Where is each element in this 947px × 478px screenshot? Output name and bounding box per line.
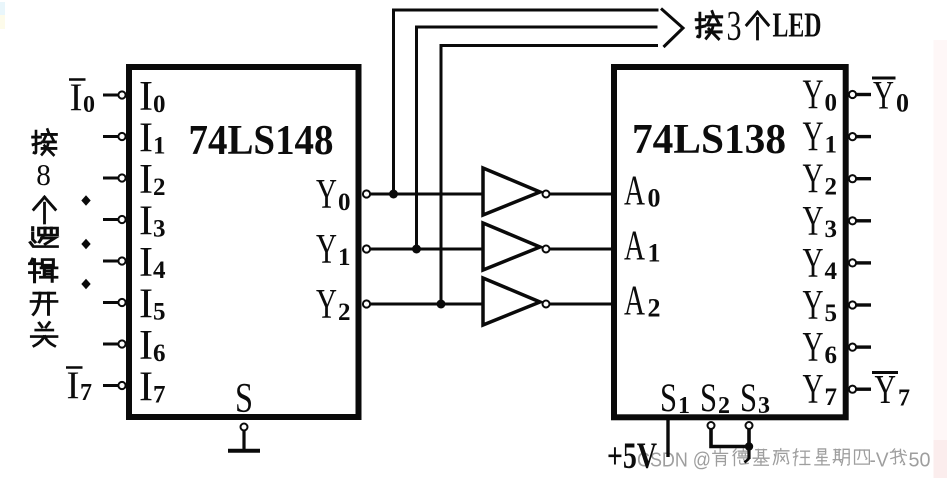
svg-text:7: 7 [153, 382, 166, 409]
svg-text:Y: Y [875, 366, 897, 412]
svg-text:3: 3 [153, 216, 166, 243]
svg-text:4: 4 [153, 257, 166, 284]
svg-text:0: 0 [338, 189, 351, 216]
pin bubble S2 [708, 422, 715, 429]
net Y0 wire: chip to LED bus and inverter [370, 10, 659, 194]
svg-text:0: 0 [896, 89, 909, 118]
U2 output labels Y0..Y7 inside [803, 73, 838, 414]
ellipsis diamonds [81, 195, 90, 289]
svg-text:A: A [624, 279, 645, 325]
U1 pin labels I0..I7 inside [139, 74, 166, 411]
svg-text:Y: Y [316, 282, 337, 328]
svg-text:I: I [139, 323, 153, 369]
node label Y0-bar [872, 73, 909, 118]
svg-text:5: 5 [153, 299, 166, 326]
svg-text:A: A [624, 169, 645, 215]
svg-text:S: S [660, 375, 677, 420]
svg-text:Y: Y [803, 199, 824, 245]
svg-text:I: I [67, 364, 80, 407]
svg-text:2: 2 [153, 174, 166, 201]
LED bus arrow [661, 9, 683, 48]
junction dot S3 [745, 442, 753, 450]
svg-text:I: I [139, 199, 153, 245]
svg-text:3: 3 [727, 3, 742, 50]
svg-text:0: 0 [825, 90, 838, 117]
svg-text:4: 4 [825, 258, 838, 285]
svg-text:A: A [624, 224, 645, 270]
U1 input pins I0-I7 (stubs and bubbles) [103, 95, 118, 386]
svg-text:3: 3 [758, 393, 770, 419]
svg-text:Y: Y [803, 73, 824, 119]
svg-text:I: I [70, 76, 83, 119]
junction dot Y1 [412, 245, 421, 254]
svg-text:+5V: +5V [607, 436, 657, 477]
svg-text:7: 7 [825, 384, 838, 411]
inverter G2 [483, 223, 614, 270]
svg-text:1: 1 [153, 133, 166, 160]
svg-text:I: I [139, 157, 153, 203]
svg-text:Y: Y [803, 115, 824, 161]
svg-text:6: 6 [153, 340, 166, 367]
svg-text:0: 0 [153, 91, 166, 118]
svg-text:Y: Y [316, 227, 337, 273]
svg-text:1: 1 [825, 132, 838, 159]
svg-text:Y: Y [803, 241, 824, 287]
svg-text:2: 2 [718, 393, 730, 419]
net Y2 wire [370, 46, 658, 305]
junction dot Y2 [437, 300, 446, 309]
U2 output pin stubs and bubbles [849, 91, 856, 393]
note 接3个LED [696, 3, 821, 50]
watermark CSDN @肯德基疯狂星期四-V我50 [637, 449, 931, 472]
svg-text:74LS148: 74LS148 [189, 118, 334, 164]
node label I7-bar [66, 364, 92, 407]
svg-text:S: S [740, 375, 757, 420]
svg-text:S: S [235, 376, 253, 422]
svg-text:74LS138: 74LS138 [632, 117, 786, 163]
svg-text:50: 50 [909, 449, 931, 472]
svg-text:Y: Y [316, 172, 337, 218]
svg-text:I: I [139, 240, 153, 286]
svg-text:6: 6 [825, 342, 838, 369]
svg-text:I: I [139, 282, 153, 328]
svg-text:Y: Y [803, 157, 824, 203]
junction dot Y0 [389, 190, 398, 199]
IC U1 74LS148 body [129, 67, 359, 417]
U2 input labels A0 A1 A2 [624, 169, 661, 325]
U1 output labels Y0 Y1 Y2 inside [316, 172, 351, 328]
wire S2-S3 tie [711, 429, 749, 463]
svg-text:1: 1 [648, 239, 661, 268]
IC U2 74LS138 body [614, 67, 846, 417]
node label I0-bar [69, 76, 95, 119]
svg-text:Y: Y [803, 283, 824, 329]
svg-text:2: 2 [825, 174, 838, 201]
svg-text:2: 2 [338, 299, 351, 326]
svg-text:LED: LED [773, 6, 822, 45]
svg-text:0: 0 [83, 92, 95, 118]
node label Y7-bar [872, 366, 910, 412]
ground at U1 pin S [228, 424, 260, 451]
svg-text:3: 3 [825, 216, 838, 243]
svg-text:S: S [700, 375, 717, 420]
svg-text:1: 1 [338, 244, 351, 271]
svg-text:7: 7 [898, 386, 910, 412]
U1 output pin bubbles Y0 Y1 Y2 [363, 190, 370, 307]
svg-text:I: I [139, 365, 153, 411]
+5V supply wire at S1 [666, 420, 669, 457]
svg-text:7: 7 [80, 380, 92, 406]
svg-text:0: 0 [648, 184, 661, 213]
svg-text:1: 1 [678, 393, 690, 419]
svg-text:-V: -V [870, 449, 889, 472]
svg-text:2: 2 [648, 294, 661, 323]
svg-text:I: I [139, 116, 153, 162]
net Y1 wire [370, 27, 658, 249]
svg-text:Y: Y [803, 367, 824, 413]
inverter G3 [483, 278, 614, 325]
svg-text:5: 5 [825, 300, 838, 327]
svg-text:Y: Y [803, 325, 824, 371]
inverter G1 [483, 168, 614, 215]
side note: 接8个逻辑开关 vertical [30, 130, 58, 346]
U2 enable labels S1 S2 S3 [660, 375, 770, 420]
svg-text:8: 8 [36, 158, 51, 192]
pin bubble S3 [746, 422, 753, 429]
svg-text:I: I [139, 74, 153, 120]
svg-text:Y: Y [873, 73, 894, 118]
